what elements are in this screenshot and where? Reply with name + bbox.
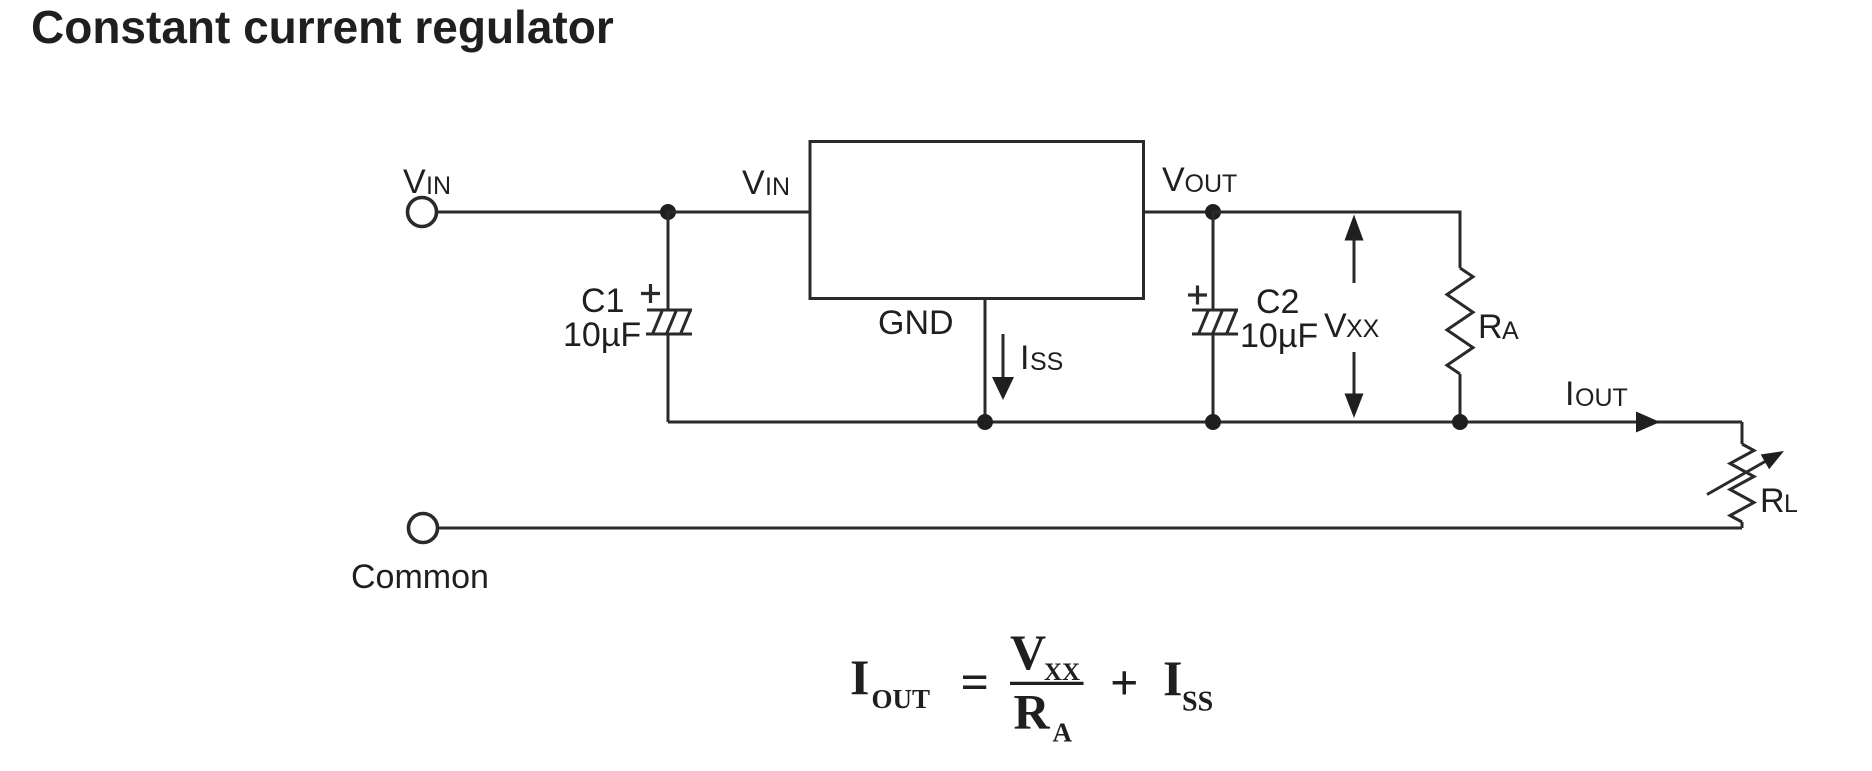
svg-text:SS: SS (1030, 348, 1063, 376)
common terminal (409, 514, 438, 543)
svg-text:C2: C2 (1256, 283, 1299, 321)
svg-text:R: R (1478, 308, 1503, 346)
svg-text:R: R (1760, 482, 1785, 520)
svg-text:V: V (403, 163, 426, 201)
wire node A to regulator VIN pin (668, 211, 810, 214)
svg-text:A: A (1053, 718, 1073, 748)
svg-text:10µF: 10µF (563, 316, 641, 354)
load resistor RL (variable) (1707, 444, 1784, 528)
svg-text:I: I (1020, 339, 1029, 377)
formula IOUT = VXX / RA + ISS (850, 624, 1213, 748)
formula fraction bar (1010, 682, 1084, 685)
wire C1 to bottom rail (667, 334, 670, 422)
C1 plus polarity mark (641, 284, 660, 303)
junction dot (RA / rail) (1452, 414, 1468, 430)
input terminal VIN (408, 198, 437, 227)
svg-text:+: + (1110, 655, 1139, 711)
current arrowhead IOUT (1636, 412, 1660, 433)
svg-text:SS: SS (1182, 687, 1213, 718)
svg-text:XX: XX (1346, 315, 1380, 343)
label RL (1760, 482, 1798, 520)
capacitor C2 (1192, 310, 1238, 334)
svg-text:IN: IN (426, 172, 451, 200)
svg-text:OUT: OUT (1575, 384, 1628, 412)
svg-text:OUT: OUT (1185, 170, 1238, 198)
pin label VOUT (1162, 161, 1237, 199)
bottom rail wire (668, 421, 1742, 424)
svg-text:I: I (1565, 375, 1574, 413)
common return wire (438, 527, 1743, 530)
svg-text:GND: GND (878, 304, 954, 342)
svg-text:R: R (1014, 684, 1051, 740)
voltage arrow VXX (double headed) (1345, 215, 1364, 419)
svg-text:Constant current regulator: Constant current regulator (31, 1, 614, 53)
svg-text:V: V (1324, 307, 1347, 345)
svg-text:V: V (742, 164, 765, 202)
wire regulator VOUT pin to node B (1144, 211, 1214, 214)
junction dot (GND / rail) (977, 414, 993, 430)
wire rail corner down to RL (1741, 422, 1744, 444)
svg-text:A: A (1502, 317, 1519, 345)
C2 plus polarity mark (1188, 286, 1207, 305)
resistor RA (1447, 268, 1473, 422)
label VIN (input terminal) (403, 163, 451, 201)
svg-text:OUT: OUT (872, 684, 931, 714)
capacitor C1 (646, 310, 692, 334)
svg-text:=: = (961, 654, 990, 710)
node B junction (1205, 204, 1221, 220)
current arrow ISS (992, 334, 1014, 400)
svg-text:IN: IN (765, 173, 790, 201)
wire node A down to C1 (667, 212, 670, 311)
label RA (1478, 308, 1519, 346)
svg-text:L: L (1784, 490, 1798, 518)
pin label VIN (742, 164, 790, 202)
svg-text:10µF: 10µF (1240, 317, 1318, 355)
wire node B to RA top corner (1213, 212, 1460, 268)
svg-text:Common: Common (351, 558, 489, 596)
wire GND pin down to bottom rail (984, 299, 987, 423)
label VXX (1324, 307, 1380, 345)
label IOUT (1565, 375, 1628, 413)
wire VIN terminal to node A (437, 211, 669, 214)
node A junction (660, 204, 676, 220)
svg-text:C1: C1 (581, 282, 624, 320)
wire C2 to bottom rail (1212, 334, 1215, 422)
regulator box U1 (810, 142, 1144, 299)
svg-text:I: I (850, 649, 869, 705)
svg-text:V: V (1162, 161, 1185, 199)
junction dot (C2 / rail) (1205, 414, 1221, 430)
wire node B down to C2 (1212, 212, 1215, 311)
svg-text:V: V (1010, 624, 1046, 680)
label ISS (1020, 339, 1063, 377)
svg-text:I: I (1163, 650, 1182, 706)
